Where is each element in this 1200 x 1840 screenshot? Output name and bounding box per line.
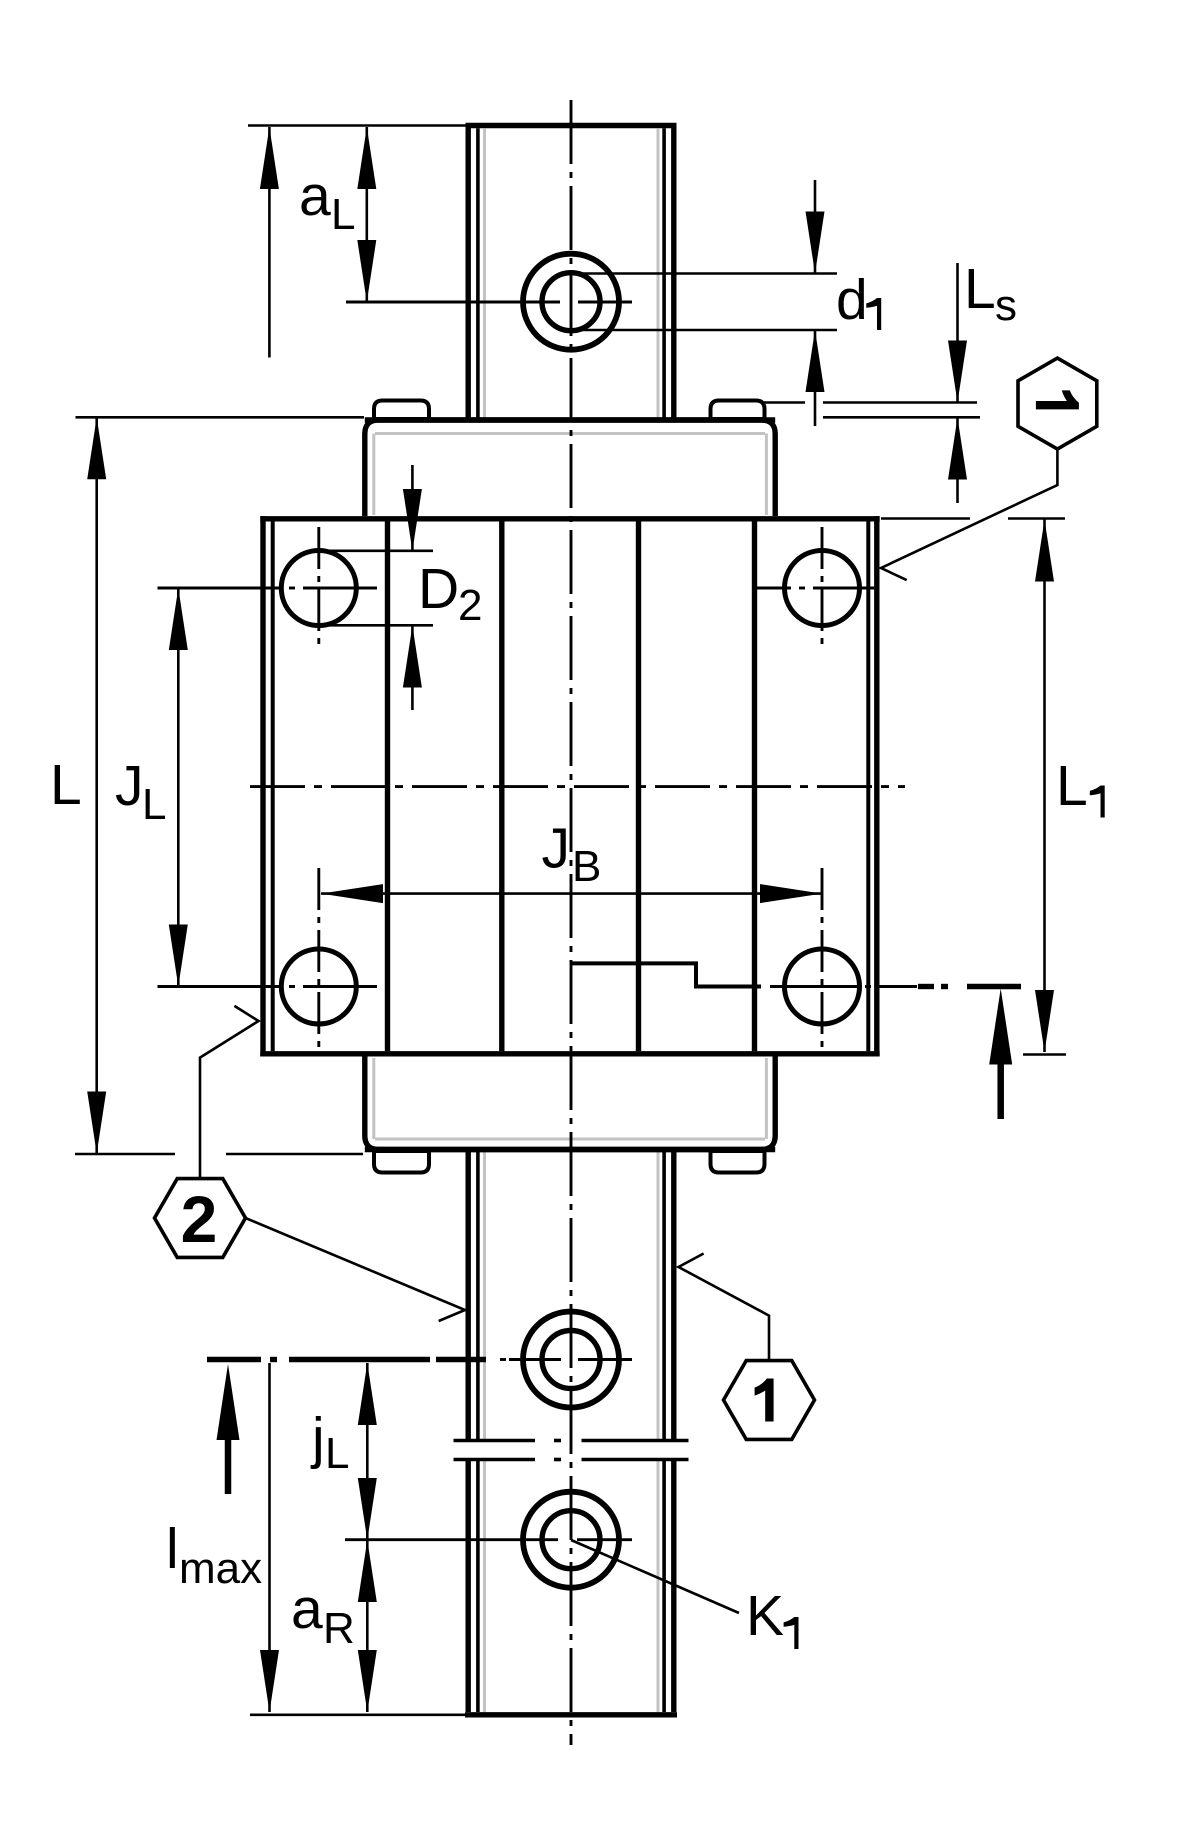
svg-text:L: L [325, 1429, 349, 1478]
svg-text:D: D [418, 557, 459, 621]
svg-text:L: L [50, 753, 82, 817]
svg-text:a: a [299, 164, 331, 228]
svg-text:J: J [542, 817, 571, 881]
svg-text:K: K [746, 1584, 784, 1648]
svg-text:a: a [291, 1577, 323, 1641]
svg-text:J: J [115, 754, 144, 818]
svg-text:d: d [836, 268, 868, 332]
svg-text:2: 2 [181, 1182, 218, 1256]
svg-text:s: s [995, 281, 1017, 330]
svg-text:L: L [1056, 754, 1088, 818]
svg-text:L: L [964, 257, 996, 321]
svg-text:j: j [310, 1406, 325, 1470]
svg-text:L: L [331, 190, 355, 239]
svg-text:2: 2 [458, 581, 482, 630]
svg-text:B: B [572, 842, 601, 891]
svg-text:R: R [323, 1604, 355, 1653]
svg-text:max: max [179, 1544, 262, 1593]
svg-text:L: L [142, 780, 166, 829]
svg-text:l: l [166, 1517, 179, 1581]
